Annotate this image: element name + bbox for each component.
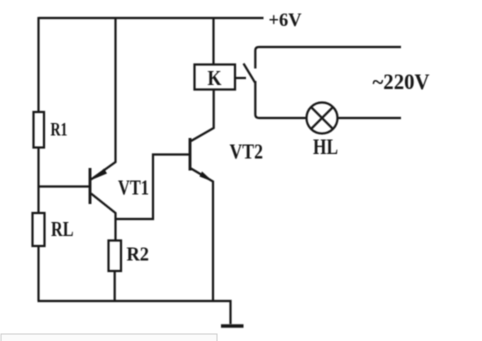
svg-text:RL: RL xyxy=(51,217,74,241)
svg-text:~220V: ~220V xyxy=(373,69,430,94)
svg-text:+6V: +6V xyxy=(269,10,302,31)
svg-text:VT2: VT2 xyxy=(230,140,264,164)
svg-text:VT1: VT1 xyxy=(118,176,149,200)
svg-text:HL: HL xyxy=(313,134,338,159)
svg-text:R2: R2 xyxy=(127,244,150,266)
svg-text:R1: R1 xyxy=(51,120,68,141)
svg-text:K: K xyxy=(208,66,222,90)
